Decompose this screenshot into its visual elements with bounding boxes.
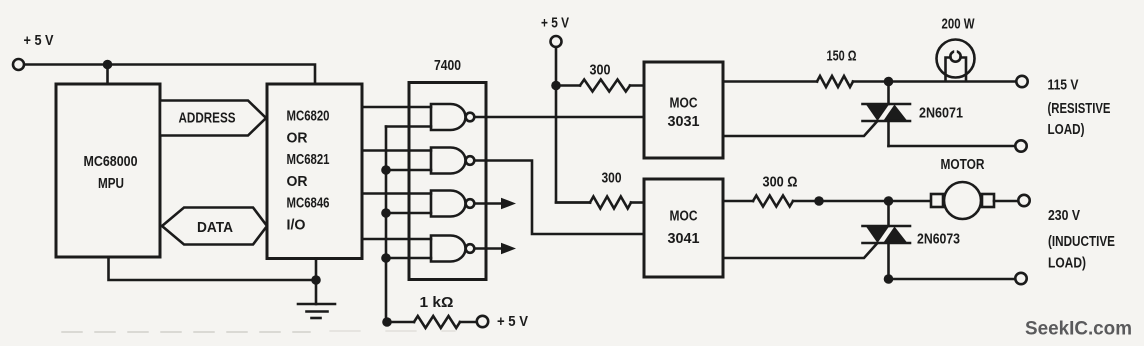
svg-text:OR: OR xyxy=(287,174,309,190)
svg-text:DATA: DATA xyxy=(197,220,233,236)
resistor 1 kOhm pull-up xyxy=(387,295,477,328)
svg-text:+ 5 V: + 5 V xyxy=(497,314,528,330)
svg-text:(RESISTIVE: (RESISTIVE xyxy=(1048,101,1111,117)
svg-text:MOC: MOC xyxy=(670,209,698,225)
115V terminal upper xyxy=(1016,76,1027,87)
svg-text:ADDRESS: ADDRESS xyxy=(179,111,236,127)
wire MOC3041 to triac 2 gate xyxy=(723,244,877,259)
triac 2N6073 Q2 xyxy=(863,201,961,279)
svg-text:OR: OR xyxy=(287,130,309,146)
junction dot strobe/gate D xyxy=(381,253,391,263)
wire strobe to gate D lower input xyxy=(386,257,431,260)
svg-text:2N6073: 2N6073 xyxy=(917,232,960,248)
svg-text:+ 5 V: + 5 V xyxy=(541,16,569,32)
junction dot triac 2N6073 tap xyxy=(884,196,894,206)
wire U2 output 4 to gate D input xyxy=(362,238,431,241)
label 115 V (RESISTIVE LOAD) xyxy=(1048,78,1111,139)
svg-text:150 Ω: 150 Ω xyxy=(827,49,857,65)
NAND gate U3C xyxy=(431,191,474,217)
resistor 300 (upper, to MOC3031) xyxy=(556,63,644,92)
triac 2N6071 Q1 xyxy=(863,82,964,147)
svg-text:SeekIC.com: SeekIC.com xyxy=(1025,319,1132,340)
junction dot triac 2 bottom xyxy=(884,274,894,284)
svg-text:LOAD): LOAD) xyxy=(1048,256,1086,272)
label 230 V (INDUCTIVE LOAD) xyxy=(1048,208,1115,272)
wire +5V vertical rail to lower 300 resistor xyxy=(556,47,590,203)
svg-text:MC6821: MC6821 xyxy=(287,152,330,168)
svg-text:+ 5 V: + 5 V xyxy=(24,33,54,49)
svg-text:3041: 3041 xyxy=(668,231,700,247)
svg-text:200 W: 200 W xyxy=(942,17,975,33)
wire gate A output to MOC3031 xyxy=(474,116,644,119)
resistor 300 Ohm (triac 2 gate circuit) xyxy=(723,175,798,207)
7400 quad NAND package box xyxy=(409,58,486,280)
wire U2 output 1 to gate A input xyxy=(362,106,431,109)
svg-text:MOC: MOC xyxy=(670,96,698,112)
NAND gate U3A xyxy=(431,104,474,130)
+5V terminal at 1k resistor xyxy=(477,314,528,330)
svg-text:300 Ω: 300 Ω xyxy=(763,175,798,191)
svg-text:300: 300 xyxy=(602,171,622,187)
wire motor to 230V upper terminal xyxy=(994,200,1018,203)
peripheral I/O MC6820/MC6821/MC6846 U2 xyxy=(267,84,362,259)
wire MPU bottom to ground net xyxy=(109,257,317,280)
ground symbol xyxy=(298,304,335,318)
wire U2 output 2 to gate B input xyxy=(362,149,431,152)
wire gate B output to MOC3041 xyxy=(474,161,644,235)
svg-text:7400: 7400 xyxy=(434,58,461,74)
svg-text:300: 300 xyxy=(590,63,611,79)
115V terminal lower xyxy=(1015,140,1026,151)
+5V supply terminal top-left xyxy=(13,33,54,70)
wire strobe to gate A lower input xyxy=(386,125,431,128)
wire U2 output 3 to gate C input xyxy=(362,192,431,195)
junction dot +5V rail xyxy=(551,81,561,91)
strobe line vertical (common gate inputs, pulled up by 1k) xyxy=(385,127,388,323)
svg-text:MC6820: MC6820 xyxy=(287,109,330,125)
svg-text:MC6846: MC6846 xyxy=(287,196,330,212)
wire gate D output with arrowhead xyxy=(474,243,516,255)
optocoupler MOC3041 U5 xyxy=(644,179,723,277)
ADDRESS bus arrow xyxy=(160,101,266,136)
junction dot strobe/gate B xyxy=(381,165,391,175)
+5V supply terminal middle xyxy=(541,16,569,48)
junction dot on ground net xyxy=(311,275,321,285)
svg-text:MPU: MPU xyxy=(98,176,124,192)
junction dot strobe/gate C xyxy=(381,208,391,218)
wire MOC3031 to triac gate xyxy=(723,122,877,137)
svg-text:115 V: 115 V xyxy=(1048,78,1079,94)
junction dot strobe/1k resistor xyxy=(382,317,392,327)
NAND gate U3B xyxy=(431,148,474,174)
wire triac 2N6071 to lower 115V terminal xyxy=(889,145,1016,148)
NAND gate U3D xyxy=(431,236,474,262)
svg-text:(INDUCTIVE: (INDUCTIVE xyxy=(1048,234,1115,250)
wire stub from +5V rail to MPU top xyxy=(106,65,109,85)
DATA bus arrow (bidirectional) xyxy=(162,208,267,245)
wire 150 ohm to 115V line with lamp xyxy=(853,80,1016,83)
svg-text:LOAD): LOAD) xyxy=(1048,122,1085,138)
svg-text:1 kΩ: 1 kΩ xyxy=(420,295,454,311)
junction dot after 300 ohm xyxy=(814,196,824,206)
optocoupler MOC3031 U4 xyxy=(644,62,723,158)
svg-text:MOTOR: MOTOR xyxy=(941,157,985,173)
svg-text:I/O: I/O xyxy=(287,218,306,234)
junction dot triac 2N6071 tap xyxy=(884,77,894,87)
wire +5V rail top xyxy=(25,65,316,85)
wire 300 ohm to motor line xyxy=(793,200,931,203)
lamp 200 W xyxy=(937,17,975,81)
MC68000 MPU U1 xyxy=(56,84,160,257)
junction dot on +5V rail xyxy=(103,60,113,70)
scan artifact faint dashes bottom-left xyxy=(62,331,310,333)
svg-text:3031: 3031 xyxy=(668,114,700,130)
230V terminal lower xyxy=(1015,273,1026,284)
resistor 300 (lower, to MOC3041) xyxy=(556,171,644,209)
svg-text:2N6071: 2N6071 xyxy=(919,106,963,122)
svg-text:230 V: 230 V xyxy=(1048,208,1080,224)
svg-text:MC68000: MC68000 xyxy=(84,154,138,170)
wire triac 2N6073 to lower 230V terminal xyxy=(889,278,1016,281)
wire U2 bottom to ground xyxy=(315,259,318,305)
wire strobe to gate B lower input xyxy=(386,169,431,172)
230V terminal upper xyxy=(1018,195,1029,206)
motor M1 xyxy=(931,157,994,219)
resistor 150 Ohm xyxy=(723,49,857,88)
wire strobe to gate C lower input xyxy=(386,212,431,215)
wire gate C output with arrowhead xyxy=(474,198,516,210)
